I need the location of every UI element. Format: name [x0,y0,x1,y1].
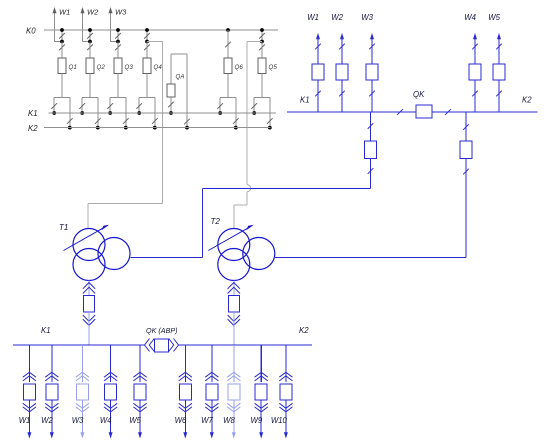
wire T1 secondary to breaker truck [88,281,90,296]
junction on K2, feeder Q2 [96,126,100,130]
junction on bus K0, feeder Q6 [226,28,230,32]
disconnector to K1, feeder Q1 [51,98,57,114]
truck contacts upper, feeder W6 [179,372,192,381]
truck contacts upper, T2 feed [228,283,240,294]
svg-text:Q6: Q6 [235,64,244,71]
wire node to breaker Q1 [61,42,63,59]
wire bus to feeder W2 lower [51,345,53,382]
bus coupler QK [413,90,432,118]
outgoing line W9 lower [250,400,263,439]
transformer T2 regulation arrow [208,217,254,251]
disconnector QA to K2 [184,54,190,128]
wire breaker Q2 to selector [89,74,91,98]
wire node to breaker Q2 [89,42,91,59]
svg-text:W2: W2 [41,416,53,425]
bus selector bar, feeder Q3 [110,97,126,99]
wire bus K0 to node, feeder Q4 [146,30,148,42]
outgoing line W10 lower [271,400,288,439]
breaker, feeder W8 [228,384,240,400]
bus K2 upper right [432,96,538,113]
truck contacts upper, feeder W2 [45,372,58,381]
truck contacts upper, feeder W3 [76,372,89,381]
svg-text:W4: W4 [464,13,476,22]
disconnector below breaker, W4 upper [472,91,478,97]
svg-text:T2: T2 [211,217,221,226]
outgoing line W5 upper [488,13,501,64]
disconnector below breaker, W1 upper [315,91,321,97]
truck contacts upper, feeder W4 [104,372,117,381]
breaker, feeder W4 [105,384,117,400]
truck contacts upper, feeder W7 [205,372,218,381]
truck contacts lower, feeder W2 [45,403,58,412]
breaker in T2 branch [460,141,472,159]
bus tie breaker QK (ABP) [145,326,179,352]
disconnector above node, feeder Q3 [115,33,121,39]
outgoing line W6 lower [175,400,188,439]
transformer T1 windings [73,229,130,281]
disconnector to K1, feeder Q4 [136,98,142,114]
svg-text:K1: K1 [41,326,51,335]
node under bus, feeder Q2 [88,40,92,44]
transformer T1 branch from bus K1 upper [368,112,374,141]
disconnector below node, feeder Q1 [59,45,65,51]
truck contacts lower, feeder W10 [279,403,292,412]
breaker, feeder W9 [255,384,267,400]
svg-text:W10: W10 [271,416,288,425]
truck contacts upper, feeder W1 [23,372,36,381]
bus K1 [28,109,276,118]
truck contacts lower, feeder W1 [23,403,36,412]
bus selector bar, feeder Q2 [82,97,98,99]
breaker, W4 upper [469,64,481,80]
incoming line W3 [109,7,128,42]
disconnector below breaker, W3 upper [369,91,375,97]
feed line to transformer T2 with wire hop [234,42,251,229]
truck contacts upper, T1 feed [83,283,95,294]
svg-text:K0: K0 [26,27,36,36]
disconnector to K2, feeder Q4 [152,98,158,128]
disconnector to K1, feeder Q6 [217,98,223,114]
breaker, feeder W2 [46,384,58,400]
wire T1 feed to lower bus [88,312,90,345]
disconnector above breaker, W3 upper [369,44,375,50]
breaker Q6 [224,58,243,74]
truck contacts lower, feeder W4 [104,403,117,412]
disconnector above node, feeder Q1 [59,33,65,39]
disconnector to K2, feeder Q1 [67,98,73,128]
wire bus K0 to breaker Q6 [227,30,229,58]
outgoing line W1 lower [19,400,32,439]
disconnector, feeder Q6 [225,42,231,48]
outgoing line W3 upper [361,13,374,64]
breaker, W2 upper [336,64,348,80]
junction on K1, feeder Q5 [252,111,256,115]
bus K2 [28,124,270,133]
bus selector bar, feeder Q5 [254,97,270,99]
wire node Q4 to T1 feed [147,41,163,43]
truck contacts lower, feeder W8 [227,403,240,412]
breaker, feeder W3 [76,384,88,400]
breaker, W3 upper [366,64,378,80]
wire breaker Q6 to selector [227,74,229,98]
svg-text:W3: W3 [72,416,84,425]
outgoing line W1 upper [307,13,320,64]
truck contacts upper, feeder W10 [279,372,292,381]
disconnector above node, feeder Q5 [259,33,265,39]
wire bus to feeder W3 lower [81,345,83,382]
svg-text:K2: K2 [28,124,38,133]
svg-text:QK (АВР): QK (АВР) [146,326,178,335]
wire node Q5 to T2 feed [247,41,262,43]
junction on bus K0, feeder Q5 [260,28,264,32]
junction QA on K1 [169,111,173,115]
wire node to breaker Q3 [117,42,119,59]
truck contacts upper, feeder W8 [227,372,240,381]
disconnector QA to K1 [168,97,174,113]
bus selector bar, feeder Q4 [139,97,155,99]
svg-text:Q1: Q1 [69,64,77,71]
breaker, feeder W7 [206,384,218,400]
transformer T2 windings [218,229,275,281]
outgoing line W5 lower [129,400,142,439]
disconnector above node, feeder Q2 [87,33,93,39]
incoming line W2 [81,7,100,42]
truck contacts lower, feeder W7 [205,403,218,412]
node under bus, feeder Q1 [60,40,64,44]
transformer T1 regulation arrow [59,223,109,251]
junction on K2, feeder Q5 [268,126,272,130]
disconnector above node, feeder Q4 [144,33,150,39]
svg-text:W9: W9 [250,416,262,425]
breaker, feeder W5 [134,384,146,400]
breaker in T1 branch [365,141,377,159]
svg-text:K2: K2 [522,96,532,105]
node under bus, feeder Q3 [116,40,120,44]
svg-text:K2: K2 [299,326,309,335]
svg-text:W7: W7 [201,416,213,425]
wire T2 secondary to breaker truck [233,281,235,296]
feed line to transformer T1 [88,42,163,229]
junction on K1, feeder Q4 [137,111,141,115]
svg-text:W2: W2 [87,8,99,17]
disconnector above breaker, W4 upper [472,44,478,50]
svg-text:QK: QK [413,90,425,99]
breaker, feeder W6 [179,384,191,400]
wire breaker to corner, T1 branch [368,159,374,189]
svg-text:K1: K1 [28,109,38,118]
svg-text:QA: QA [176,74,185,81]
bus selector bar, feeder Q6 [220,97,236,99]
disconnector to K2, feeder Q6 [233,98,239,128]
wire node to breaker Q4 [146,42,148,59]
truck contacts lower, feeder W5 [133,403,146,412]
wire bus to feeder W8 lower [233,345,235,382]
junction on K1, feeder Q1 [52,111,56,115]
truck contacts upper, feeder W9 [255,372,268,381]
wire QA bar to fuse [170,54,172,84]
svg-text:W1: W1 [19,416,31,425]
fuse QA [167,74,184,98]
bus K1 upper right [287,96,416,113]
junction on bus K0, feeder Q4 [145,28,149,32]
junction on K1, feeder Q2 [80,111,84,115]
bus K1 lower [13,326,145,345]
bus coupler QA bar [171,53,187,55]
disconnector below breaker, W5 upper [496,91,502,97]
svg-text:Q2: Q2 [97,64,106,71]
svg-text:T1: T1 [59,223,68,232]
bus K0 [26,27,278,36]
node under bus, feeder Q5 [260,40,264,44]
svg-text:W4: W4 [100,416,112,425]
disconnector to K2, feeder Q2 [95,98,101,128]
svg-text:Q4: Q4 [154,64,163,71]
node under bus, feeder Q4 [145,40,149,44]
disconnector below breaker, W2 upper [339,91,345,97]
breaker in T2 feed [228,296,239,313]
svg-text:W1: W1 [307,13,319,22]
svg-text:W6: W6 [175,416,187,425]
disconnector below node, feeder Q3 [115,45,121,51]
truck contacts lower, feeder W3 [76,403,89,412]
breaker Q4 [143,58,162,74]
junction on K2, feeder Q6 [234,126,238,130]
wire bus K0 to node, feeder Q5 [261,30,263,42]
junction on K1, feeder Q6 [218,111,222,115]
junction on K1, feeder Q3 [108,111,112,115]
transformer T2 branch from bus K2 upper [463,112,469,141]
outgoing line W2 upper [331,13,344,64]
wire bus to feeder W5 lower [139,345,141,382]
wire breaker to bus, W1 upper [317,80,319,112]
disconnector to K1, feeder Q3 [107,98,113,114]
disconnector to K1, feeder Q2 [79,98,85,114]
breaker Q5 [258,58,277,74]
breaker Q1 [58,58,77,74]
wire bus K0 to node, feeder Q2 [89,30,91,42]
junction on bus K0, feeder Q3 [116,28,120,32]
wire breaker to bus, W4 upper [474,80,476,112]
bus K2 lower [179,326,313,345]
breaker Q3 [114,58,133,74]
truck contacts lower, feeder W6 [179,403,192,412]
wire breaker Q4 to selector [146,74,148,98]
svg-text:W2: W2 [331,13,343,22]
junction on K2, feeder Q3 [124,126,128,130]
breaker, W1 upper [312,64,324,80]
junction on bus K0, feeder Q1 [60,28,64,32]
breaker, W5 upper [493,64,505,80]
svg-text:W5: W5 [129,416,141,425]
svg-text:W5: W5 [488,13,500,22]
svg-text:W8: W8 [223,416,235,425]
junction on K2, feeder Q1 [68,126,72,130]
wire bus K0 to node, feeder Q1 [61,30,63,42]
wire to transformer T2 [275,256,466,258]
outgoing line W3 lower [72,400,85,439]
truck contacts lower, T2 feed [228,315,240,325]
wire breaker to bus, W2 upper [341,80,343,112]
svg-text:W1: W1 [59,8,70,17]
disconnector to K1, feeder Q5 [251,98,257,114]
disconnector above breaker, W2 upper [339,44,345,50]
wire bus to feeder W1 lower [28,345,30,382]
wire breaker Q1 to selector [61,74,63,98]
breaker Q2 [86,58,105,74]
svg-text:W3: W3 [115,8,127,17]
disconnector to K2, feeder Q5 [267,98,273,128]
breaker in T1 feed [84,296,95,313]
truck contacts upper, feeder W5 [133,372,146,381]
outgoing line W4 upper [464,13,477,64]
wire bus to feeder W10 lower [285,345,287,382]
wire bus to feeder W4 lower [110,345,112,382]
disconnector below node, feeder Q4 [144,45,150,51]
bus selector bar, feeder Q1 [54,97,70,99]
wire bus K0 to node, feeder Q3 [117,30,119,42]
svg-text:W3: W3 [361,13,373,22]
incoming line W1 [53,7,71,42]
wire breaker to bus, W5 upper [498,80,500,112]
outgoing line W4 lower [100,400,113,439]
outgoing line W8 lower [223,400,236,439]
wire breaker Q5 to selector [261,74,263,98]
outgoing line W7 lower [201,400,214,439]
junction on K2, feeder Q4 [153,126,157,130]
disconnector right of QK [445,109,451,115]
disconnector to K2, feeder Q3 [123,98,129,128]
disconnector left of QK [397,109,403,115]
disconnector below node, feeder Q5 [259,45,265,51]
svg-text:Q5: Q5 [269,64,278,71]
svg-text:K1: K1 [300,96,310,105]
outgoing line W2 lower [41,400,54,439]
junction on bus K0, feeder Q2 [88,28,92,32]
truck contacts lower, T1 feed [83,315,95,325]
svg-text:Q3: Q3 [125,64,134,71]
wire breaker Q3 to selector [117,74,119,98]
junction QA on K2 [185,126,189,130]
disconnector above breaker, W1 upper [315,44,321,50]
wire node to breaker Q5 [261,42,263,59]
breaker, feeder W10 [280,384,292,400]
breaker, feeder W1 [23,384,35,400]
wire bus to feeder W6 lower [184,345,186,382]
wire bus to feeder W7 lower [211,345,213,382]
disconnector above breaker, W5 upper [496,44,502,50]
truck contacts lower, feeder W9 [255,403,268,412]
wire breaker to corner, T2 branch [463,159,469,258]
wire breaker to bus, W3 upper [371,80,373,112]
wire bus to feeder W9 lower [260,345,262,382]
wire to transformer T1 [131,188,371,257]
disconnector below node, feeder Q2 [87,45,93,51]
wire T2 feed to lower bus [233,312,235,345]
